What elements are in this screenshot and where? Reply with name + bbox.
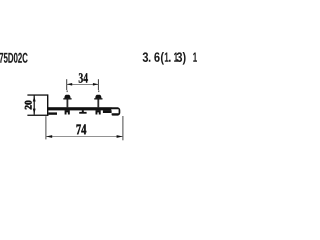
dimension text 34 <box>79 73 88 83</box>
stud2 stem <box>97 99 99 108</box>
dim 74 arrow left <box>46 135 52 138</box>
foot E bar <box>103 110 112 113</box>
dim 34 extension line left (stud1 centerline) <box>66 79 67 90</box>
foot C bar <box>79 112 86 114</box>
stud1 cap <box>63 98 71 99</box>
dim 34 arrow right <box>93 83 99 86</box>
dim 20 line (wall left edge) <box>34 95 35 115</box>
centerline dash stud2 <box>98 90 99 92</box>
dim 74 line <box>46 135 123 138</box>
dim 20 bottom extension + wall bottom line <box>27 115 48 116</box>
spec text 3.6(1.13)1 <box>143 52 197 65</box>
foot C stem <box>82 110 84 112</box>
dimension text 20 (rotated) <box>25 101 32 110</box>
part number text 75D02C <box>0 53 28 63</box>
dim 20 arrow down <box>33 109 36 115</box>
foot A bar (near wall, detached lip) <box>48 112 57 114</box>
dim 34 extension line right (stud2 centerline) <box>98 79 99 90</box>
dim 74 extension left <box>45 116 46 139</box>
stud2 cap <box>94 98 102 99</box>
dim 74 arrow right <box>117 135 123 138</box>
foot B under stud1 (two prongs) <box>65 110 70 114</box>
centerline dash stud1 <box>67 90 68 92</box>
foot D under stud2 (two prongs) <box>96 110 101 114</box>
dim 34 arrow left <box>67 83 73 86</box>
dim 34 line <box>67 83 99 86</box>
wall top line + dim20 top extension <box>27 94 47 95</box>
hook at right end (curl with bottom lip) <box>111 107 120 115</box>
stud1 stem <box>67 99 69 108</box>
dim 74 extension right <box>122 116 123 140</box>
base bar <box>47 107 111 110</box>
wall right edge <box>47 94 48 116</box>
dimension text 74 <box>77 124 87 134</box>
dim 20 arrow up <box>33 96 36 102</box>
